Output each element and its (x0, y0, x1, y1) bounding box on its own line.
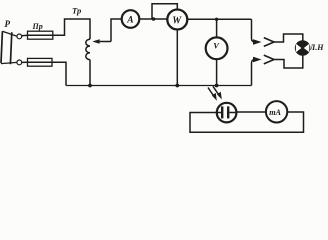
connector X1 pin (arrow) (253, 39, 262, 45)
connector X1 socket (chevron) (264, 38, 274, 47)
fuse Pr2 body (28, 58, 53, 66)
knife switch P blade 2 (10, 32, 11, 64)
ammeter A (122, 10, 140, 28)
photocell anode lead (229, 112, 236, 114)
switch bottom slant link (1, 62, 17, 63)
milliammeter mA (266, 101, 287, 122)
svg-text:Р: Р (5, 19, 11, 29)
junction node current-coil tap (152, 17, 156, 21)
wire photocell loop left/bottom (190, 112, 304, 132)
lamp L.N (incandescent) (296, 41, 310, 55)
svg-text:А: А (126, 16, 133, 26)
wire hinge bottom to fuse 2 (22, 61, 28, 63)
junction voltmeter tap (215, 18, 218, 21)
wire tap to voltmeter (216, 19, 218, 37)
knife switch P blade 1 (1, 31, 2, 63)
wire wattmeter voltage coil to rail (176, 30, 178, 86)
wire W to connector branch (187, 18, 251, 20)
photocell cathode (221, 106, 223, 118)
connector X2 socket (chevron) (264, 55, 274, 64)
junction wattmeter/rail (175, 84, 179, 88)
wattmeter current-coil loop (152, 4, 177, 19)
wire hinge top to fuse 1 (22, 34, 28, 37)
voltmeter V (206, 37, 228, 59)
transformer Tr winding (86, 39, 90, 59)
wire X2 to lamp bottom (274, 55, 303, 68)
wire winding bottom to rail (89, 60, 91, 86)
svg-text:Л.Н: Л.Н (309, 43, 324, 52)
junction winding/rail (88, 84, 92, 88)
wiper arrow of Tr (95, 41, 111, 43)
fuse Pr2 through-wire (28, 61, 53, 63)
switch top slant link (2, 31, 17, 36)
wire top feed to connector X1 (252, 19, 256, 42)
junction voltmeter/rail (215, 84, 219, 88)
wire fuse1 to transformer top (53, 19, 90, 39)
svg-text:W: W (172, 15, 182, 26)
switch hinge contact bottom (17, 60, 22, 65)
photocell cathode lead (217, 112, 221, 114)
wire bottom rail (66, 85, 252, 87)
fuse Pr1 through-wire (28, 34, 53, 36)
light ray arrow 2 (213, 86, 222, 99)
switch hinge contact top (17, 34, 22, 39)
photocell body (217, 103, 237, 123)
svg-text:Тр: Тр (72, 6, 81, 16)
wire fuse2 to bottom rail (52, 62, 66, 85)
wire photocell to mA (236, 111, 266, 113)
svg-text:Пр: Пр (32, 22, 43, 31)
svg-text:тА: тА (269, 108, 281, 117)
connector X2 pin (arrow) (253, 57, 262, 63)
wire wiper to ammeter (111, 19, 122, 42)
wattmeter W (167, 10, 187, 30)
wire X1 to lamp loop (274, 34, 303, 42)
wire bottom feed to connector X2 (252, 60, 256, 86)
photocell anode (227, 106, 229, 118)
light ray arrow 1 (208, 88, 217, 101)
fuse Pr1 body (28, 31, 53, 39)
wire voltmeter to rail (216, 59, 218, 85)
wire A to W (139, 18, 167, 20)
